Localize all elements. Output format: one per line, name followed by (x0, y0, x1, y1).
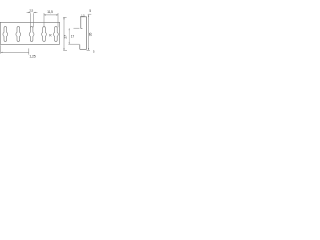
arrowhead slot-width left (29, 12, 31, 13)
arrowhead pitch left (44, 14, 46, 15)
section right dim top serif (88, 13, 92, 15)
svg-text:35: 35 (89, 33, 93, 37)
section outer dim line (63, 17, 65, 50)
dim pitch extension lines (44, 13, 58, 27)
section profile bottom lip up (79, 45, 81, 50)
section profile web right (86, 17, 88, 50)
svg-text:1,25: 1,25 (29, 54, 35, 58)
dim slot-width arrow lines (27, 11, 38, 13)
rail top edge (0, 21, 60, 23)
inner dim extension bottom (68, 43, 79, 45)
dim pitch line (44, 14, 58, 16)
arrowhead section inner bottom (69, 42, 70, 44)
arrowhead section outer bottom (63, 48, 64, 50)
rail left end (0, 22, 2, 44)
section profile top flange (80, 16, 87, 18)
keyhole slot 3 (29, 27, 34, 42)
arrowhead section right top (88, 15, 89, 17)
dim bottom left extension (0, 45, 2, 53)
arrowhead slot-width right (34, 12, 36, 13)
section right dim bottom extension (87, 49, 90, 51)
keyhole slot 5 (53, 27, 58, 42)
keyhole slot 1 (3, 27, 8, 42)
svg-text:17: 17 (71, 35, 75, 39)
section profile bottom flange (80, 48, 87, 50)
svg-text:27: 27 (63, 35, 67, 39)
keyhole slot 4 (42, 27, 47, 42)
svg-text:1,5: 1,5 (81, 14, 85, 18)
section profile top lip down (81, 17, 83, 29)
svg-text:11,5: 11,5 (47, 10, 53, 14)
section outer dim bottom serif (63, 49, 67, 51)
svg-text:5: 5 (89, 9, 91, 13)
arrowhead section inner top (69, 28, 70, 30)
dim slot-width extension lines (30, 13, 33, 27)
section inner dim line (68, 28, 70, 44)
keyhole slot 2 (16, 27, 21, 42)
inner dim extension top (74, 27, 80, 29)
section right dim line (88, 15, 90, 50)
dim bottom length line (1, 51, 29, 53)
rail bottom edge (0, 43, 60, 45)
arrowhead section right bottom (88, 48, 89, 50)
rail right end (59, 22, 61, 44)
arrowhead bottom-left (1, 52, 3, 53)
arrowhead section outer top (63, 17, 64, 19)
dim bottom tick (28, 48, 30, 54)
section outer dim top serif (63, 16, 66, 18)
arrowhead pitch right (56, 14, 58, 15)
svg-text:2,5: 2,5 (29, 8, 33, 12)
